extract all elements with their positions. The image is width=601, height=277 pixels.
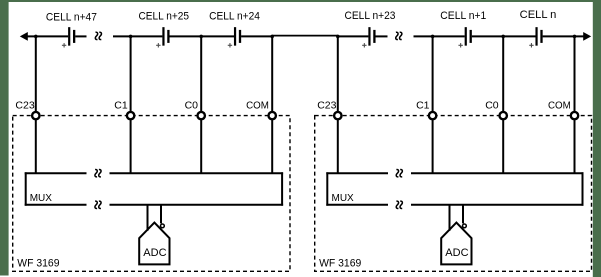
svg-text:C1: C1 (114, 100, 128, 112)
svg-text:MUX: MUX (332, 193, 355, 204)
svg-text:CELL n+23: CELL n+23 (345, 10, 396, 22)
svg-text:CELL n+24: CELL n+24 (209, 10, 260, 22)
svg-text:C1: C1 (416, 100, 430, 112)
svg-text:WF 3169: WF 3169 (319, 258, 361, 270)
svg-text:C23: C23 (317, 100, 336, 112)
svg-text:CELL n+47: CELL n+47 (46, 11, 97, 23)
svg-text:MUX: MUX (30, 193, 53, 204)
svg-text:ADC: ADC (143, 247, 166, 259)
svg-text:ADC: ADC (445, 247, 468, 259)
svg-text:CELL n: CELL n (520, 9, 557, 21)
svg-text:CELL n+25: CELL n+25 (139, 10, 190, 22)
svg-text:C23: C23 (15, 100, 34, 112)
svg-text:C0: C0 (485, 100, 499, 112)
svg-text:COM: COM (246, 100, 269, 112)
svg-text:C0: C0 (185, 100, 199, 112)
svg-text:CELL n+1: CELL n+1 (440, 10, 486, 22)
svg-text:COM: COM (548, 100, 571, 112)
svg-text:WF 3169: WF 3169 (17, 258, 59, 270)
